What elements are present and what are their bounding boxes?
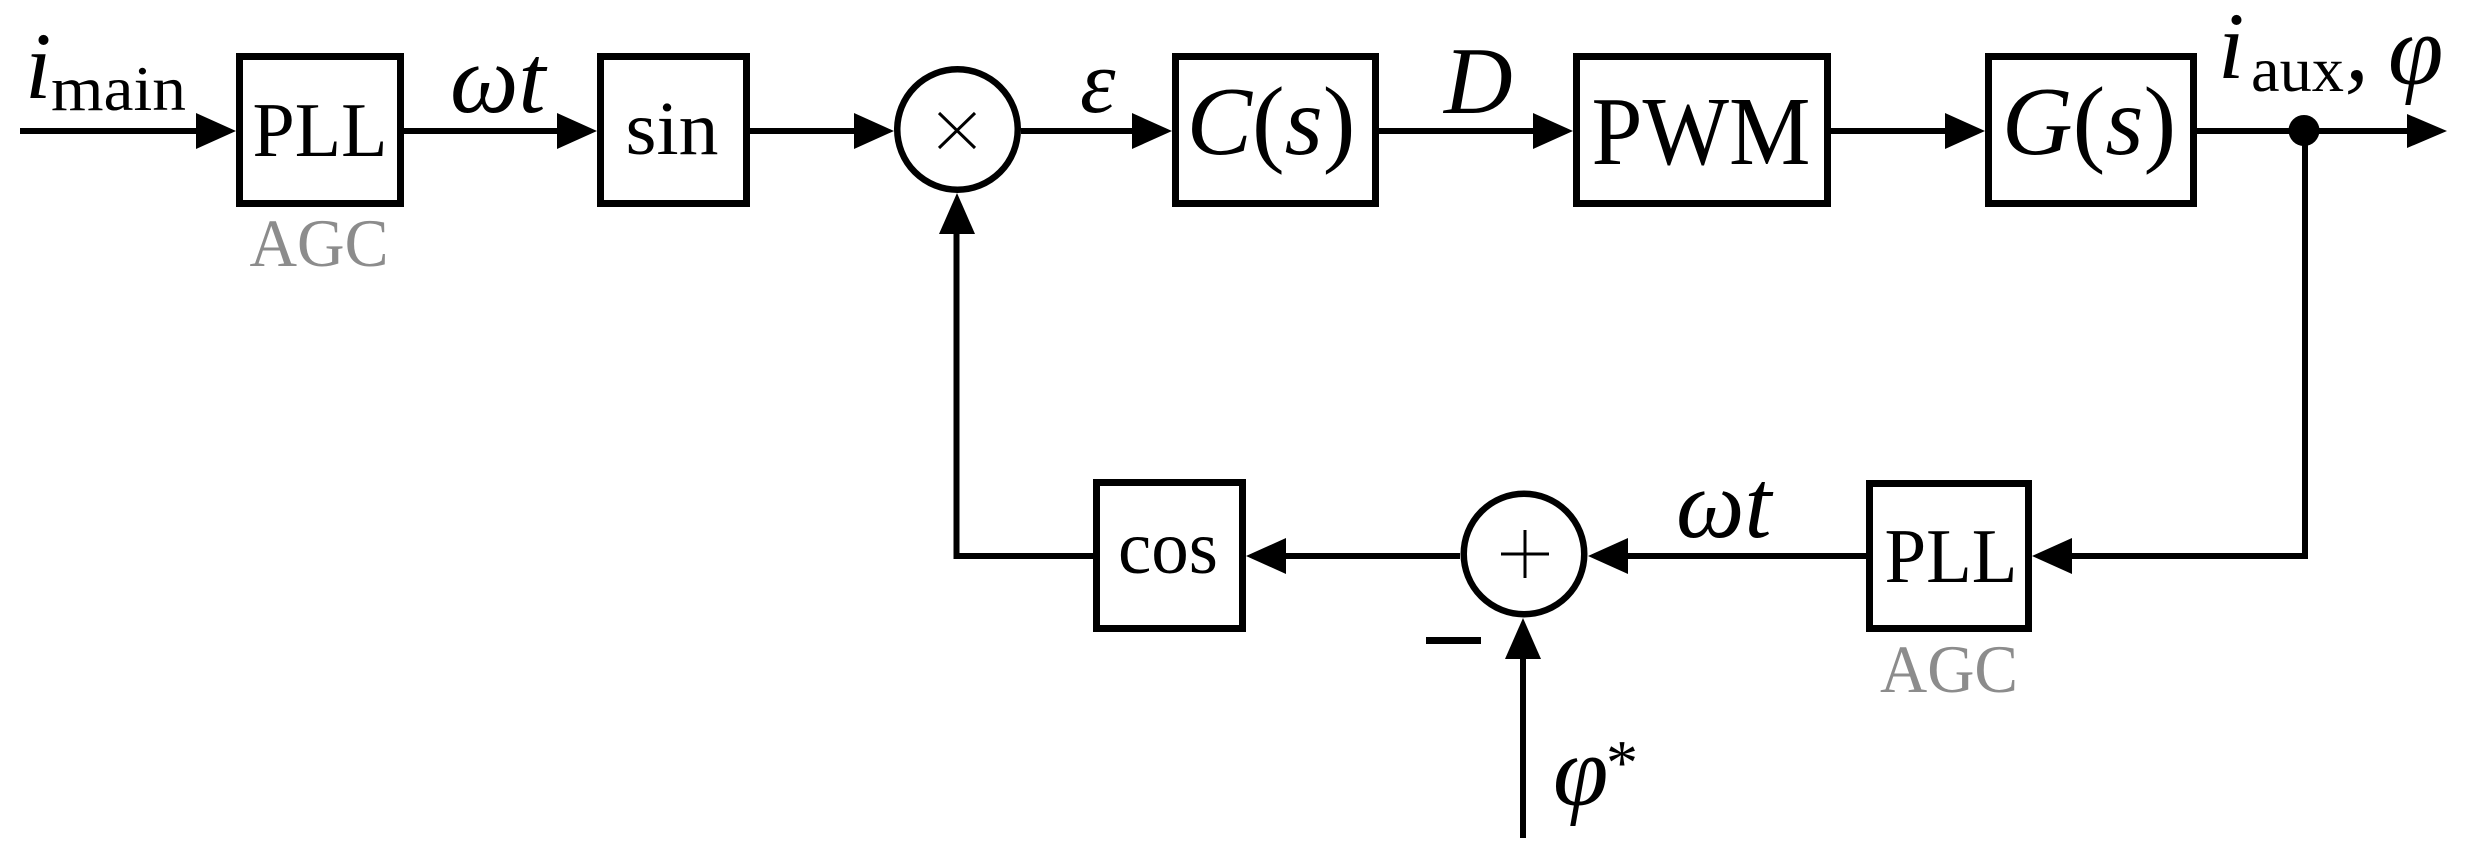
wire PWM to G(s): [1831, 113, 1985, 149]
block PWM (U4): [1577, 57, 1828, 204]
multiplier node (X1) circle: [897, 69, 1018, 190]
wire G(s) to output: [2197, 114, 2447, 148]
node i_main input label: [25, 13, 186, 124]
svg-text:i: i: [2218, 0, 2244, 99]
wire summing node to cos: [1246, 538, 1460, 574]
svg-text:aux: aux: [2251, 34, 2344, 105]
block cos (U7): [1097, 483, 1243, 629]
svg-text:G(s): G(s): [2002, 68, 2176, 176]
node label phi* reference: [1553, 716, 1638, 827]
block G(s) plant (U5): [1989, 57, 2194, 204]
svg-text:*: *: [1606, 727, 1638, 798]
svg-text:ε: ε: [1080, 33, 1116, 132]
wire PLL to sin: [404, 113, 597, 149]
svg-text:main: main: [51, 53, 186, 124]
summing node (S1) circle with plus: [1464, 494, 1585, 615]
node junction dot: [2289, 115, 2320, 146]
wire multiplier to C(s): [1021, 113, 1172, 149]
wire C(s) to PWM: [1379, 113, 1573, 149]
wire PLL aux to summing node: [1588, 538, 1866, 574]
wire input to PLL (AGC) main: [20, 113, 236, 149]
block sin (U2): [601, 57, 747, 204]
svg-text:sin: sin: [626, 87, 719, 171]
svg-text:D: D: [1442, 28, 1513, 134]
arrowhead up into summing node: [1505, 618, 1541, 659]
svg-text:PWM: PWM: [1592, 78, 1811, 185]
svg-text:φ: φ: [1553, 716, 1608, 827]
svg-text:i: i: [25, 13, 51, 119]
svg-text:PLL: PLL: [1885, 513, 2018, 599]
block PLL aux (U6): [1870, 484, 2029, 629]
label minus sign at summing node: [1426, 637, 1481, 644]
block C(s) controller (U3): [1176, 57, 1376, 204]
svg-text:φ: φ: [2388, 0, 2443, 106]
svg-text:PLL: PLL: [253, 87, 388, 173]
svg-text:ωt: ωt: [450, 26, 547, 133]
wire sin to multiplier: [750, 113, 894, 149]
svg-text:cos: cos: [1118, 506, 1218, 590]
svg-text:C(s): C(s): [1187, 68, 1356, 176]
arrowhead into PLL aux: [2032, 538, 2072, 574]
svg-text:AGC: AGC: [250, 205, 389, 281]
wire cos left and up into multiplier: [957, 230, 1094, 556]
node label i_aux, phi output: [2218, 0, 2443, 106]
wire feedback: node down and left to PLL aux: [2070, 133, 2305, 556]
block PLL main (U1): [240, 57, 401, 204]
svg-text:ωt: ωt: [1676, 451, 1773, 558]
arrowhead up into multiplier: [939, 193, 975, 234]
svg-text:,: ,: [2345, 0, 2369, 101]
wire phi* reference up into summing node: [1520, 656, 1526, 838]
svg-text:AGC: AGC: [1880, 631, 2018, 707]
